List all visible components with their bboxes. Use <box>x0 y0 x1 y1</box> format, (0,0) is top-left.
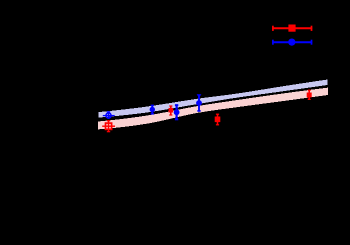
pink confidence band <box>98 88 328 130</box>
red data point E with error bar <box>216 114 219 125</box>
legend red entry: line with caps and square marker <box>272 26 312 31</box>
blue data point A with error bar <box>151 105 154 114</box>
red data point B with error bar <box>169 106 172 116</box>
blue data point D with error bar and top triangle cap <box>197 96 200 112</box>
blue data point C with error bar <box>175 104 178 120</box>
open red square point (stacked average) with error bars <box>102 120 115 132</box>
red data point F with error bar <box>308 90 311 100</box>
open blue circle point (stacked average) with error bars <box>103 111 115 119</box>
blue confidence band <box>98 80 327 118</box>
legend blue entry: line with caps and circle marker <box>272 40 312 45</box>
